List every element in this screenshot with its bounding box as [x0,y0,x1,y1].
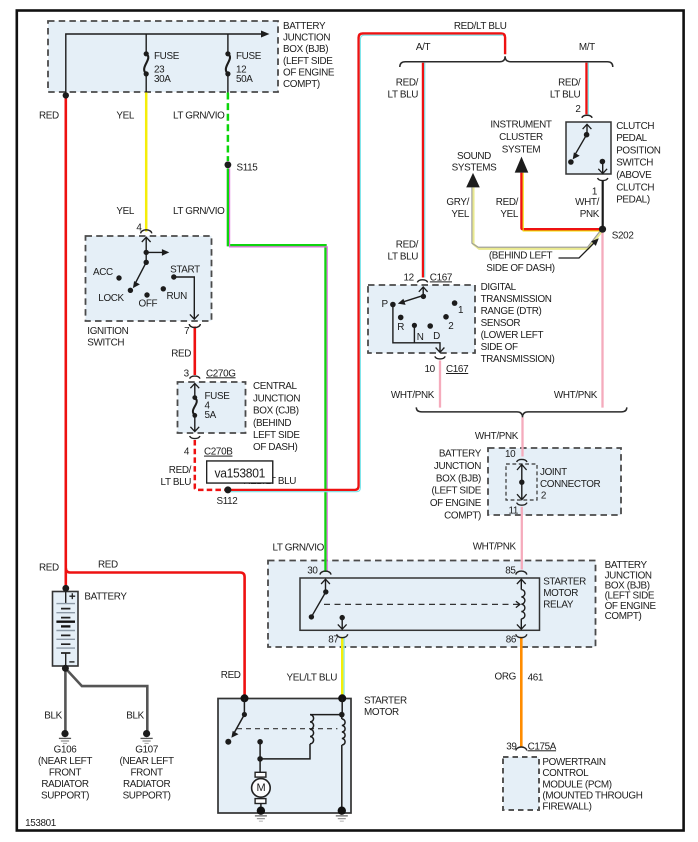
svg-text:YEL: YEL [116,206,134,217]
svg-text:P: P [382,299,389,310]
svg-text:YEL: YEL [116,111,134,122]
svg-text:INSTRUMENT: INSTRUMENT [490,119,552,130]
svg-text:RED/: RED/ [496,197,519,208]
svg-text:M: M [256,782,265,794]
svg-text:MOTOR: MOTOR [364,707,399,718]
svg-text:7: 7 [184,326,189,337]
svg-text:WHT/PNK: WHT/PNK [391,390,435,401]
svg-text:YEL: YEL [451,209,469,220]
svg-text:WHT/PNK: WHT/PNK [473,541,517,552]
svg-text:(LEFT SIDE: (LEFT SIDE [431,486,481,497]
svg-text:OF ENGINE: OF ENGINE [430,498,482,509]
svg-text:RED: RED [171,349,191,360]
svg-text:TRANSMISSION): TRANSMISSION) [481,354,555,365]
svg-text:JUNCTION: JUNCTION [434,461,481,472]
svg-text:1: 1 [458,305,464,316]
svg-text:SENSOR: SENSOR [481,318,521,329]
svg-text:LT GRN/VIO: LT GRN/VIO [173,206,225,217]
svg-text:IGNITION: IGNITION [87,326,128,337]
svg-text:BLK: BLK [126,711,144,722]
svg-text:JUNCTION: JUNCTION [253,393,300,404]
svg-text:C270B: C270B [204,447,233,458]
svg-text:LT BLU: LT BLU [388,252,419,263]
svg-text:CONNECTOR: CONNECTOR [540,479,601,490]
svg-text:BOX (CJB): BOX (CJB) [253,406,299,417]
svg-text:ORG: ORG [495,672,516,683]
svg-text:JUNCTION: JUNCTION [283,33,330,44]
svg-text:BATTERY: BATTERY [439,449,482,460]
svg-text:RED: RED [221,670,241,681]
svg-text:RANGE (DTR): RANGE (DTR) [481,306,542,317]
svg-text:SOUND: SOUND [457,151,491,162]
svg-text:C167: C167 [430,272,452,283]
svg-text:CLUTCH: CLUTCH [616,121,654,132]
svg-text:SYSTEM: SYSTEM [502,145,541,156]
svg-text:FRONT: FRONT [49,768,82,779]
svg-text:TRANSMISSION: TRANSMISSION [481,294,552,305]
svg-text:RED/: RED/ [396,240,419,251]
svg-text:FUSE: FUSE [154,51,180,62]
svg-text:FRONT: FRONT [130,768,163,779]
svg-text:WHT/PNK: WHT/PNK [554,390,598,401]
svg-text:CONTROL: CONTROL [542,768,589,779]
svg-text:POSITION: POSITION [616,145,661,156]
svg-text:S202: S202 [612,231,634,242]
svg-text:RED: RED [39,111,59,122]
svg-text:RED/: RED/ [396,78,419,89]
svg-text:30A: 30A [154,74,171,85]
svg-text:10: 10 [505,449,516,460]
svg-text:LOCK: LOCK [98,293,124,304]
svg-text:BATTERY: BATTERY [283,21,326,32]
svg-text:RELAY: RELAY [543,600,574,611]
svg-text:ACC: ACC [93,267,113,278]
svg-text:JOINT: JOINT [540,467,567,478]
svg-text:11: 11 [508,506,518,517]
svg-text:RED/LT BLU: RED/LT BLU [454,21,507,32]
svg-text:2: 2 [541,490,546,501]
svg-text:PNK: PNK [580,209,600,220]
svg-text:S112: S112 [217,496,238,507]
svg-text:D: D [433,331,440,342]
svg-text:LT BLU: LT BLU [161,477,192,488]
svg-text:BOX (BJB): BOX (BJB) [436,473,481,484]
svg-text:WHT/PNK: WHT/PNK [475,431,519,442]
svg-text:FUSE: FUSE [236,51,262,62]
svg-text:S115: S115 [237,163,259,174]
svg-text:LT BLU: LT BLU [388,90,419,101]
svg-text:C175A: C175A [528,741,557,752]
svg-text:(LEFT SIDE: (LEFT SIDE [283,56,333,67]
svg-text:4: 4 [184,447,190,458]
svg-text:RADIATOR: RADIATOR [41,779,89,790]
svg-text:G106: G106 [54,745,78,756]
svg-text:COMPT): COMPT) [605,611,642,622]
svg-text:YEL/LT BLU: YEL/LT BLU [287,672,338,683]
svg-text:153801: 153801 [25,818,57,829]
svg-text:R: R [397,322,404,333]
svg-text:CLUTCH: CLUTCH [616,182,654,193]
svg-text:YEL: YEL [500,209,518,220]
svg-text:4: 4 [136,223,142,234]
svg-text:DIGITAL: DIGITAL [481,282,517,293]
svg-text:A/T: A/T [416,42,431,53]
svg-text:30: 30 [307,565,318,576]
svg-text:COMPT): COMPT) [444,511,481,522]
svg-text:2: 2 [575,104,580,115]
svg-text:SUPPORT): SUPPORT) [123,790,171,801]
svg-text:(NEAR LEFT: (NEAR LEFT [38,756,92,767]
svg-text:POWERTRAIN: POWERTRAIN [542,757,605,768]
svg-text:MOTOR: MOTOR [543,588,578,599]
svg-text:(MOUNTED THROUGH: (MOUNTED THROUGH [542,790,642,801]
svg-text:LT BLU: LT BLU [550,90,581,101]
svg-text:LEFT SIDE: LEFT SIDE [253,430,300,441]
svg-text:PEDAL): PEDAL) [616,195,650,206]
svg-text:RED/: RED/ [169,465,192,476]
svg-text:(NEAR LEFT: (NEAR LEFT [120,756,174,767]
svg-text:G107: G107 [135,745,158,756]
svg-text:va153801: va153801 [215,465,266,480]
svg-text:OF DASH): OF DASH) [253,442,297,453]
svg-text:3: 3 [184,368,190,379]
svg-text:START: START [170,264,200,275]
svg-text:461: 461 [528,672,544,683]
svg-text:39: 39 [506,741,517,752]
svg-text:STARTER: STARTER [543,576,586,587]
svg-text:5A: 5A [205,410,217,421]
svg-text:CLUSTER: CLUSTER [499,132,543,143]
svg-text:OFF: OFF [139,299,158,310]
svg-text:RED/: RED/ [558,78,581,89]
svg-text:BATTERY: BATTERY [84,592,127,603]
svg-text:OF ENGINE: OF ENGINE [283,67,335,78]
svg-text:SIDE OF DASH): SIDE OF DASH) [486,263,554,274]
svg-text:C167: C167 [446,364,468,375]
svg-text:CENTRAL: CENTRAL [253,381,297,392]
svg-text:RED: RED [98,559,118,570]
svg-text:WHT/: WHT/ [575,197,599,208]
svg-text:LT GRN/VIO: LT GRN/VIO [173,111,225,122]
svg-text:(BEHIND: (BEHIND [253,418,291,429]
svg-text:RED: RED [39,563,59,574]
svg-text:SUPPORT): SUPPORT) [41,790,89,801]
svg-text:PEDAL: PEDAL [616,133,647,144]
svg-text:SWITCH: SWITCH [616,158,653,169]
svg-text:FIREWALL): FIREWALL) [542,801,591,812]
svg-text:2: 2 [448,321,453,332]
svg-text:STARTER: STARTER [364,695,407,706]
svg-text:C270G: C270G [206,368,236,379]
svg-text:BLK: BLK [44,711,62,722]
svg-text:(BEHIND LEFT: (BEHIND LEFT [489,251,553,262]
svg-text:RADIATOR: RADIATOR [123,779,171,790]
svg-text:BOX (BJB): BOX (BJB) [283,44,328,55]
svg-text:(ABOVE: (ABOVE [616,170,652,181]
svg-text:86: 86 [506,635,517,646]
svg-text:GRY/: GRY/ [446,197,469,208]
svg-text:LT GRN/VIO: LT GRN/VIO [272,542,324,553]
svg-text:MODULE (PCM): MODULE (PCM) [542,779,611,790]
svg-text:SWITCH: SWITCH [87,338,124,349]
svg-text:RUN: RUN [167,291,188,302]
svg-text:N: N [417,332,424,343]
svg-text:(LOWER LEFT: (LOWER LEFT [481,330,544,341]
svg-text:M/T: M/T [579,42,595,53]
svg-text:12: 12 [404,272,414,283]
svg-text:COMPT): COMPT) [283,79,320,90]
svg-text:SIDE OF: SIDE OF [481,342,518,353]
svg-text:SYSTEMS: SYSTEMS [452,163,498,174]
svg-text:50A: 50A [236,74,253,85]
svg-text:10: 10 [425,364,436,375]
svg-text:85: 85 [505,565,516,576]
svg-text:87: 87 [328,635,338,646]
